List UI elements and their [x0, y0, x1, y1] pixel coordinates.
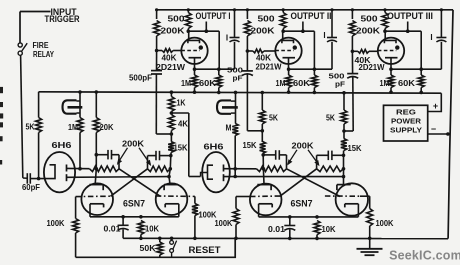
wire: trigger line down-left	[21, 55, 23, 177]
wire: cathode row stage III	[389, 42, 441, 71]
label 2D21W stage II	[256, 62, 282, 72]
svg-text:pF: pF	[335, 80, 345, 89]
label plus	[433, 101, 438, 111]
svg-text:60K: 60K	[293, 78, 310, 88]
resistor 40K (stage II)	[247, 49, 276, 53]
wire: 500pF III drop	[342, 77, 353, 133]
svg-text:10K: 10K	[145, 224, 159, 234]
svg-text:+: +	[433, 101, 438, 111]
capacitor 0.01 (FF1)	[118, 217, 129, 239]
svg-text:50K: 50K	[140, 243, 156, 253]
svg-text:60K: 60K	[398, 78, 415, 88]
svg-text:1M: 1M	[276, 78, 286, 88]
resistor 100K (FF2 left grid)	[233, 197, 250, 241]
label 2D21W stage I	[156, 62, 185, 72]
grid line left triode FF1	[76, 195, 113, 197]
svg-text:OUTPUT I: OUTPUT I	[196, 11, 231, 21]
wire: 6H6 left top diode row	[67, 167, 90, 169]
tube 6H6 (left)	[44, 152, 75, 192]
resistor 100K (FF1 right grid)	[192, 196, 198, 240]
label REG POWER SUPPLY	[390, 108, 422, 135]
svg-text:40K: 40K	[256, 53, 271, 63]
label minus	[431, 124, 436, 134]
resistor 200K left FF1 row	[90, 166, 120, 172]
capacitor coupling right FF1	[148, 151, 171, 161]
label 40K stage I	[162, 53, 177, 63]
svg-text:1M: 1M	[181, 78, 191, 88]
svg-text:100K: 100K	[47, 218, 65, 228]
svg-text:0.01: 0.01	[268, 224, 285, 234]
label RESET	[189, 245, 222, 255]
tube 2D21 (stage II)	[275, 32, 301, 69]
svg-text:500: 500	[168, 14, 185, 24]
tube 2D21 (stage I)	[181, 32, 207, 69]
svg-text:pF: pF	[233, 74, 243, 83]
wire: bus to 5K	[38, 92, 40, 118]
wire: grid chain stage I	[155, 37, 159, 53]
node INPUT TRIGGER label	[45, 7, 81, 24]
svg-text:SeekIC.com: SeekIC.com	[389, 249, 460, 263]
label 0.01 FF2	[268, 224, 285, 234]
tube 2D21 (stage III)	[378, 32, 404, 69]
svg-text:200K: 200K	[356, 26, 380, 36]
scan edge marks	[0, 87, 3, 165]
svg-text:I: I	[430, 33, 432, 42]
label 500 (stage II)	[258, 14, 275, 24]
svg-text:20K: 20K	[100, 122, 114, 132]
label 60K stage II	[293, 78, 310, 88]
svg-text:1M: 1M	[380, 78, 390, 88]
tube 6SN7 left triode	[81, 183, 113, 216]
wire: 15K to plate node FF1 right	[167, 152, 172, 184]
label 200K (stage II)	[251, 26, 275, 36]
wire: output tap stage II	[301, 22, 305, 34]
wire: 200K drop stage I	[155, 8, 158, 19]
label 2D21W stage III	[359, 62, 385, 72]
label OUTPUT I	[196, 11, 231, 21]
label 15K FF2 left	[243, 140, 257, 150]
resistor 500 (stage I)	[185, 8, 191, 31]
label 100K FF1 right	[199, 210, 217, 220]
label OUTPUT II	[291, 11, 332, 21]
wire: 5K2a to 15K2a	[261, 124, 263, 142]
resistor 500 (stage II)	[280, 8, 286, 31]
resistor 1K	[168, 92, 174, 111]
svg-text:5K: 5K	[326, 113, 335, 123]
svg-text:OUTPUT II: OUTPUT II	[291, 11, 332, 21]
resistor 40K (stage I)	[157, 49, 182, 53]
wire: minus terminal	[428, 132, 450, 136]
label 20K	[100, 122, 114, 132]
wire: output tap stage III	[406, 22, 410, 34]
wire: 1M mid down	[233, 136, 237, 179]
label leader right FF2	[308, 150, 320, 167]
svg-text:4K: 4K	[178, 119, 188, 129]
wire: 5K2a drop	[261, 93, 263, 111]
watermark SeekIC.com	[389, 249, 460, 263]
resistor 10K (FF2)	[314, 221, 320, 241]
junction on main bus x=344	[342, 91, 346, 95]
label 1M stage I	[181, 78, 191, 88]
resistor 1M (stage I)	[192, 69, 198, 94]
resistor 5K (FF2 left)	[259, 110, 265, 124]
label 100K FF2 right	[376, 218, 394, 228]
svg-text:10K: 10K	[322, 224, 336, 234]
label 15K FF2 right	[348, 143, 362, 153]
wire: ground rail loop	[76, 238, 236, 257]
wire: lower bus	[123, 237, 448, 239]
label 60pF	[22, 182, 40, 192]
switch fire relay	[18, 43, 27, 55]
label 1M stage II	[276, 78, 286, 88]
ground	[357, 238, 383, 255]
resistor 200K right FF1 row	[148, 166, 171, 172]
wire: 5K2b to 15K2b	[343, 124, 345, 139]
label 200K (stage I)	[161, 26, 185, 36]
label 1 cap III	[430, 33, 432, 42]
svg-text:I: I	[226, 34, 228, 43]
svg-text:60pF: 60pF	[22, 182, 40, 192]
capacitor coupling left FF2	[263, 150, 286, 160]
label 15K FF1	[174, 143, 188, 153]
wire: FF2 left vert	[261, 153, 265, 184]
label OUTPUT III	[387, 11, 433, 21]
resistor 1M (stage II)	[286, 69, 292, 94]
wire: lamp2 drop	[235, 92, 237, 123]
capacitor 60pF	[23, 173, 50, 184]
label 500pF stage I	[129, 73, 152, 83]
label 200K (stage III)	[356, 26, 380, 36]
wire: cathode bus FF1	[90, 215, 179, 219]
capacitor 1 output (stage I)	[230, 8, 240, 42]
grid line right triode FF2	[325, 195, 360, 197]
switch reset	[170, 237, 177, 258]
label 6SN7 FF2	[291, 199, 313, 209]
wire: cross diagonal A FF1	[119, 169, 161, 197]
label 10K FF2	[322, 224, 336, 234]
label 5K FF2 left	[269, 113, 278, 123]
svg-text:1K: 1K	[177, 98, 186, 108]
resistor 1M (middle)	[232, 124, 238, 136]
wire: cross diagonal A FF2	[287, 169, 341, 197]
label 60K stage I	[199, 78, 216, 88]
label 5K input	[26, 122, 35, 132]
wire: 200K drop stage II	[246, 8, 249, 19]
wire: right coupling junction FF1	[147, 156, 149, 169]
label 100K far left	[47, 218, 65, 228]
svg-text:500: 500	[361, 14, 378, 24]
resistor 50K	[157, 237, 163, 258]
wire: J1 drop to diode 2	[171, 113, 207, 177]
label 1 cap II	[323, 31, 325, 40]
svg-text:SUPPLY: SUPPLY	[390, 126, 422, 135]
wire: 6H6 mid top diode row	[224, 168, 257, 170]
resistor 100K (far left)	[73, 197, 79, 258]
resistor 60K (stage III)	[418, 69, 424, 94]
resistor 1M (left)	[77, 118, 83, 133]
capacitor 500pF (stage III)	[347, 53, 358, 79]
wire: 1M left down	[78, 133, 82, 171]
label 100K FF2 left	[215, 218, 233, 228]
wire: 5K to trigger row	[37, 133, 41, 181]
svg-text:TRIGGER: TRIGGER	[45, 14, 81, 24]
wire: 500pF I drop	[156, 74, 171, 134]
resistor 200K (stage II)	[244, 21, 250, 37]
svg-text:100K: 100K	[215, 218, 233, 228]
tube 6SN7-2 left triode	[250, 184, 282, 217]
wire: 6H6 mid bottom diode long row	[224, 175, 346, 179]
svg-text:500pF: 500pF	[129, 73, 152, 83]
capacitor 1 output (stage II)	[327, 8, 337, 42]
label 200K FF1	[122, 139, 144, 149]
wire: input trigger lead	[20, 12, 51, 43]
svg-text:POWER: POWER	[391, 117, 422, 126]
svg-text:5K: 5K	[26, 122, 35, 132]
power supply box	[384, 105, 428, 141]
label 6H6 middle	[204, 142, 224, 152]
resistor 200K right FF2 row	[317, 166, 344, 172]
resistor 5K (input)	[36, 118, 42, 133]
svg-text:60K: 60K	[199, 78, 216, 88]
wire: 5K2b drop	[343, 93, 345, 110]
resistor 10K (FF1)	[138, 221, 144, 241]
wire: cross diagonal B FF1	[111, 169, 148, 197]
wire: right border	[448, 10, 453, 239]
capacitor 0.01 (FF2)	[284, 217, 295, 240]
label 200K FF2	[292, 141, 314, 151]
grid line left triode FF2	[250, 195, 281, 198]
wire: output tap stage I	[205, 22, 209, 34]
capacitor coupling left FF1	[96, 150, 119, 160]
svg-text:200K: 200K	[122, 139, 144, 149]
label 1M middle	[226, 123, 232, 133]
wire: left coupling junction FF1	[118, 155, 120, 169]
junction 4K-15K	[170, 131, 174, 142]
label 5K FF2 right	[326, 113, 335, 123]
svg-text:2D21W: 2D21W	[156, 62, 185, 72]
label 60K stage III	[398, 78, 415, 88]
wire: 200K drop stage III	[351, 8, 354, 19]
svg-text:OUTPUT III: OUTPUT III	[387, 11, 433, 21]
resistor 4K	[168, 112, 174, 131]
svg-text:200K: 200K	[292, 141, 314, 151]
junction on main bus x=80	[78, 90, 82, 94]
svg-text:200K: 200K	[251, 26, 275, 36]
svg-text:100K: 100K	[376, 218, 394, 228]
grid line right triode FF1	[156, 195, 195, 197]
wire: cathode row stage I	[193, 42, 235, 71]
wire: cross diagonal B FF2	[280, 169, 317, 197]
resistor 60K (stage II)	[311, 69, 317, 94]
wire: FF2 right vert	[342, 151, 346, 185]
svg-text:RESET: RESET	[189, 245, 222, 255]
resistor 500 (stage III)	[382, 8, 388, 31]
resistor 15K (FF2 right)	[341, 139, 347, 151]
resistor 200K (stage III)	[349, 21, 355, 37]
capacitor 500pF (stage II)	[242, 51, 253, 76]
wire: plate row stage I	[187, 29, 220, 69]
label leader left FF2	[287, 150, 297, 166]
svg-text:−: −	[431, 124, 436, 134]
svg-text:15K: 15K	[348, 143, 362, 153]
wire: top supply bus	[157, 9, 453, 11]
label 10K FF1	[145, 224, 159, 234]
wire: grid chain stage III	[351, 37, 355, 54]
label 0.01 FF1	[104, 224, 121, 234]
junction 1K-4K	[170, 111, 174, 115]
label 6SN7 FF1	[123, 199, 145, 209]
svg-text:REG: REG	[396, 108, 416, 117]
resistor 60K (stage I)	[216, 69, 222, 94]
resistor 5K (FF2 right)	[341, 110, 347, 124]
svg-text:M: M	[226, 123, 232, 133]
resistor 40K (stage III)	[352, 49, 378, 53]
label 6H6 left	[52, 140, 72, 150]
label 1K	[177, 98, 186, 108]
svg-text:40K: 40K	[355, 55, 371, 65]
wire: grid chain stage II	[246, 37, 250, 53]
resistor 100K (FF2 right grid)	[360, 196, 373, 240]
label 4K	[178, 119, 188, 129]
junction on main bus x=235.5	[234, 91, 238, 95]
svg-text:0.01: 0.01	[104, 224, 121, 234]
svg-text:40K: 40K	[162, 53, 177, 63]
wire: main bus	[39, 92, 442, 93]
label 1M left	[68, 122, 78, 132]
resistor 1M (stage III)	[388, 69, 394, 94]
svg-text:I: I	[323, 31, 325, 40]
svg-text:6SN7: 6SN7	[291, 199, 313, 209]
wire: bus to plus terminal	[428, 93, 442, 111]
svg-text:RELAY: RELAY	[33, 49, 54, 59]
capacitor 1 output (stage III)	[436, 8, 446, 42]
indicator element (left)	[63, 92, 83, 118]
svg-text:15K: 15K	[174, 143, 188, 153]
wire: 6H6 left bottom diode long row	[67, 176, 170, 179]
label 40K stage II	[256, 53, 271, 63]
resistor 15K (FF1)	[168, 142, 174, 153]
wire: plate row stage III	[383, 29, 421, 69]
tube 6H6 (middle)	[202, 152, 230, 192]
label 500pF stage III	[329, 72, 346, 89]
label FIRE RELAY	[33, 40, 55, 59]
resistor 15K (FF2 left)	[260, 142, 266, 154]
tube 6SN7 right triode	[156, 183, 188, 216]
wire: plate row stage II	[281, 29, 314, 69]
label leader right FF1	[139, 148, 151, 166]
svg-text:15K: 15K	[243, 140, 257, 150]
label 50K	[140, 243, 156, 253]
svg-text:6H6: 6H6	[204, 142, 224, 152]
wire: 500pF II drop	[247, 75, 264, 133]
svg-text:5K: 5K	[269, 113, 278, 123]
svg-text:500: 500	[258, 14, 275, 24]
wire: 20K down to grid network	[95, 133, 99, 185]
indicator element (middle)	[217, 100, 238, 113]
label leader left FF1	[117, 148, 128, 165]
label 500pF stage II	[227, 66, 243, 83]
svg-text:2D21W: 2D21W	[256, 62, 282, 72]
resistor 200K (stage I)	[154, 21, 160, 37]
svg-text:200K: 200K	[161, 26, 185, 36]
svg-text:1M: 1M	[68, 122, 78, 132]
wire: left coupling junction FF2	[286, 155, 288, 169]
resistor 200K left FF2 row	[257, 166, 287, 172]
wire: cathode row stage II	[287, 42, 332, 71]
svg-text:6H6: 6H6	[52, 140, 72, 150]
wire: right coupling junction FF2	[316, 155, 318, 169]
label 500 (stage III)	[361, 14, 378, 24]
capacitor 500pF (stage I)	[151, 51, 162, 75]
junction on main bus x=171.4	[170, 90, 174, 94]
resistor 20K	[93, 92, 99, 133]
label 1M stage III	[380, 78, 390, 88]
tube 6SN7-2 right triode	[336, 183, 368, 217]
label 40K stage III	[355, 55, 371, 65]
wire: cathode bus FF2	[259, 215, 359, 219]
junction on main bus x=96.3	[95, 90, 99, 94]
label 500 (stage I)	[168, 14, 185, 24]
svg-text:6SN7: 6SN7	[123, 199, 145, 209]
junction on main bus x=262.3	[261, 91, 265, 95]
capacitor coupling right FF2	[317, 151, 344, 161]
label 1 cap I	[226, 34, 228, 43]
